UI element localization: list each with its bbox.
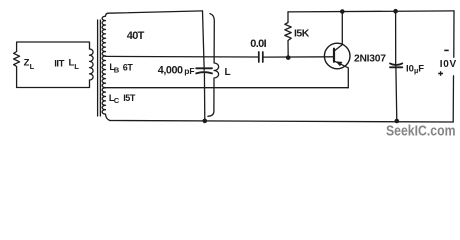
- node base junction dot: [286, 55, 291, 60]
- wire 0.01 to base junction: [264, 56, 334, 58]
- resistor ZL left loop with zigzag: [14, 42, 90, 88]
- svg-text:6T: 6T: [123, 62, 134, 72]
- label minus sign of 10V: [444, 49, 448, 51]
- svg-text:IIT: IIT: [54, 58, 64, 69]
- svg-text:I0µF: I0µF: [406, 64, 424, 76]
- node tank bottom rail dot: [203, 119, 208, 124]
- node 10uF top rail dot: [393, 9, 398, 14]
- svg-text:40T: 40T: [127, 30, 145, 42]
- wire tap2 emitter wire: [106, 87, 349, 89]
- capacitor 10uF plates: [390, 63, 402, 67]
- svg-text:L: L: [30, 62, 35, 71]
- transistor Q1 2N1307 collector wire: [335, 11, 343, 50]
- inductor secondary 40T section: [102, 13, 108, 56]
- resistor 15K: [285, 12, 291, 58]
- transistor Q1 circle: [324, 43, 350, 69]
- wire tank cap branch vertical: [203, 11, 205, 121]
- label plus sign of 10V: [438, 71, 443, 76]
- wire top from secondary to tank: [108, 11, 203, 13]
- svg-text:I5T: I5T: [123, 93, 136, 103]
- wire bottom rail: [110, 121, 453, 123]
- svg-text:C: C: [114, 96, 120, 105]
- inductor secondary LB 6T section: [102, 56, 105, 88]
- transistor Q1 base bar: [333, 49, 335, 62]
- transformer core: [98, 20, 101, 116]
- svg-text:B: B: [114, 66, 120, 75]
- svg-text:4,000: 4,000: [158, 64, 183, 76]
- svg-text:L: L: [225, 67, 231, 78]
- capacitor 0.01 series plates: [259, 52, 263, 62]
- wire tap1 base wire: [106, 55, 258, 58]
- inductor LL primary winding 11T: [90, 49, 94, 80]
- capacitor 10uF branch: [396, 11, 397, 121]
- transistor Q1 emitter arrow: [336, 61, 343, 66]
- transistor Q1 emitter wire: [335, 61, 349, 87]
- battery 10V supply branch: [452, 11, 455, 122]
- inductor secondary LC 15T section: [102, 88, 110, 121]
- svg-text:L: L: [74, 62, 79, 71]
- node 10uF bottom rail dot: [395, 119, 400, 124]
- capacitor 4000pF plates: [196, 68, 212, 73]
- svg-text:I0V: I0V: [440, 59, 457, 70]
- inductor L branch with bumps: [208, 14, 219, 117]
- svg-text:SeekIC.com: SeekIC.com: [386, 124, 456, 140]
- node collector rail dot: [340, 9, 345, 14]
- svg-text:0.0I: 0.0I: [250, 38, 266, 50]
- wire top right rail: [288, 11, 454, 12]
- svg-text:pF: pF: [184, 66, 194, 76]
- svg-text:2NI307: 2NI307: [354, 54, 386, 65]
- svg-text:I5K: I5K: [294, 28, 310, 40]
